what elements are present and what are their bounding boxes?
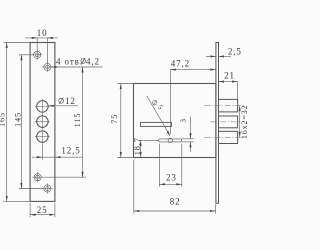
bolt 3 (bottom) xyxy=(219,131,238,143)
bolt 2 centre line xyxy=(210,121,241,123)
slot in body xyxy=(141,122,172,126)
svg-text:3: 3 xyxy=(179,118,187,123)
svg-text:4,2: 4,2 xyxy=(86,57,100,67)
dimension 145 (vertical) xyxy=(19,55,43,189)
keyhole xyxy=(159,138,182,142)
bolt 3 centre line xyxy=(204,136,244,138)
bolt 1 centre line xyxy=(204,105,244,107)
svg-text:4 отв.: 4 отв. xyxy=(56,57,83,67)
bolt 1 (top) xyxy=(219,99,238,112)
svg-text:5: 5 xyxy=(156,103,165,112)
dimension 10 (top) xyxy=(26,38,58,63)
screw hole top-left xyxy=(32,50,42,60)
dimension 23 xyxy=(159,144,181,187)
bolt 2 (middle) xyxy=(219,116,238,128)
hole d12 #2 xyxy=(35,114,50,129)
hole d12 #1 xyxy=(35,99,50,114)
svg-text:12: 12 xyxy=(65,96,76,106)
svg-text:10: 10 xyxy=(37,28,48,38)
lock body xyxy=(134,84,216,158)
screw hole top-right xyxy=(42,62,52,72)
faceplate side xyxy=(216,42,219,203)
dimension 12,5 xyxy=(32,144,83,160)
label 4 otv d4,2 leader xyxy=(51,66,102,68)
dimension 18,7 (vertical) xyxy=(139,140,159,157)
dimension 3 xyxy=(182,117,194,153)
dimension 2,5 xyxy=(206,55,231,57)
dimension 16x2=32 (vertical) xyxy=(239,106,241,138)
dimension 25 (bottom) xyxy=(30,203,55,217)
screw hole bottom-right xyxy=(42,183,52,193)
svg-text:16х2=32: 16х2=32 xyxy=(240,105,249,139)
svg-text:47,2: 47,2 xyxy=(171,58,190,68)
dimension 75 (vertical) xyxy=(117,84,133,158)
dimension 47,2 xyxy=(170,70,216,134)
screw hole bottom-left xyxy=(32,172,42,182)
svg-text:21: 21 xyxy=(224,70,235,80)
hole d12 #3 xyxy=(35,129,50,144)
dimension 165 (vertical) xyxy=(4,43,31,202)
svg-text:82: 82 xyxy=(170,196,181,206)
dimension 82 xyxy=(134,160,216,214)
svg-text:115: 115 xyxy=(73,113,82,128)
svg-text:25: 25 xyxy=(37,205,48,215)
svg-text:2,5: 2,5 xyxy=(228,46,242,56)
svg-text:23: 23 xyxy=(166,173,177,183)
svg-text:145: 145 xyxy=(13,112,22,127)
svg-text:165: 165 xyxy=(0,112,7,127)
dimension 21 xyxy=(219,82,238,99)
dimension 115 (vertical) xyxy=(42,67,86,177)
svg-text:75: 75 xyxy=(110,114,119,124)
svg-text:18,7: 18,7 xyxy=(133,137,142,155)
label d12 leader xyxy=(48,105,78,107)
svg-text:12,5: 12,5 xyxy=(61,145,80,155)
faceplate outline xyxy=(30,43,55,202)
leader d5 (diagonal) xyxy=(147,96,170,136)
